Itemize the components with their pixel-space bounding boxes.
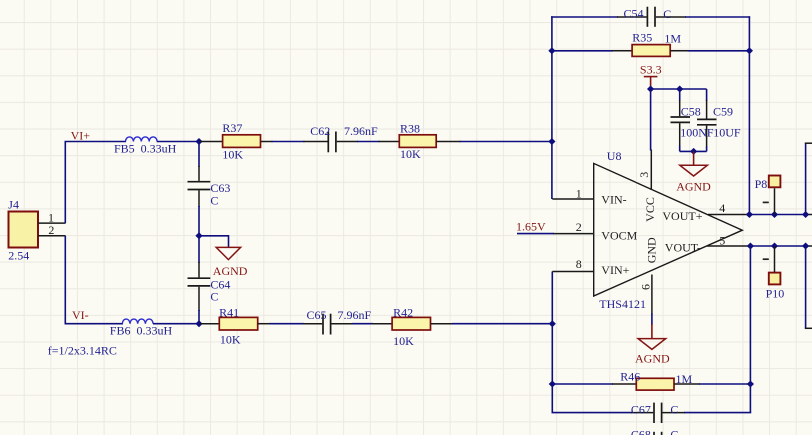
resistor R38 body xyxy=(399,135,436,148)
net label VI+ xyxy=(71,128,91,142)
wire VOUT+ row xyxy=(749,214,806,216)
wire C67 row right segment xyxy=(684,412,751,414)
op-amp pin 1 VIN- xyxy=(552,198,593,200)
junction dot VI+ / left vertical xyxy=(548,138,555,145)
junction dot R46 row right xyxy=(747,381,754,388)
wire S3.3 node down to VCC pin xyxy=(650,89,652,151)
junction dot VOUT+ / P8 xyxy=(771,211,778,218)
svg-text:R37: R37 xyxy=(222,121,242,135)
wire right vertical lower (VOUT- to off-page corner) xyxy=(805,246,807,328)
ground AGND bottom symbol xyxy=(638,339,666,350)
label C63 xyxy=(210,181,230,195)
ground AGND bottom stem xyxy=(651,324,653,338)
svg-text:R46: R46 xyxy=(620,369,640,383)
label C68 (cut off at bottom edge) xyxy=(631,428,651,435)
svg-text:f=1/2x3.14RC: f=1/2x3.14RC xyxy=(48,343,117,357)
label C54 xyxy=(624,7,644,21)
svg-text:C67: C67 xyxy=(631,403,651,417)
resistor R46 right pin xyxy=(674,383,700,385)
capacitor C68 plates (cut off at bottom edge) xyxy=(654,432,662,435)
wire J4 pin1 vertical up to VI+ row xyxy=(65,142,126,224)
junction dot VOUT+ / right vertical xyxy=(802,211,809,218)
svg-text:C62: C62 xyxy=(310,124,330,138)
op-amp pin 8 VIN+ xyxy=(552,271,593,273)
junction dot VI- / left-bottom vertical xyxy=(549,320,556,327)
wire top row right segment xyxy=(685,16,750,18)
capacitor C63 bottom pin xyxy=(198,190,200,236)
svg-text:3: 3 xyxy=(637,172,651,178)
label C59 xyxy=(713,104,733,118)
pin number 4 xyxy=(719,201,725,215)
svg-text:10K: 10K xyxy=(400,147,421,161)
wire R42 to left-bottom vertical xyxy=(452,323,552,325)
wire C58/C59 bottom xyxy=(680,150,707,152)
svg-text:10UF: 10UF xyxy=(713,126,741,140)
resistor R42 body xyxy=(392,317,430,330)
svg-text:7.96nF: 7.96nF xyxy=(338,308,372,322)
pin name VOUT- xyxy=(665,241,701,255)
svg-text:VOUT-: VOUT- xyxy=(665,241,701,255)
resistor R41 right pin xyxy=(258,323,271,325)
resistor R35 right pin xyxy=(670,50,689,52)
wire right vertical upper (from off-page corner to VOUT+) xyxy=(805,143,807,214)
wire C62 to R38 xyxy=(357,141,379,143)
label 1M of R35 xyxy=(664,32,681,46)
svg-text:C: C xyxy=(210,193,218,207)
pin name GND (rotated) xyxy=(644,237,658,263)
label FB5 0.33uH xyxy=(114,142,177,156)
wire R46 row right segment xyxy=(699,383,750,385)
label C67 xyxy=(631,403,651,417)
junction dot VOUT- / right vertical xyxy=(802,243,809,250)
capacitor C64 top pin xyxy=(198,236,200,278)
label C65 xyxy=(307,308,327,322)
P8 pin 1 number (rotated) xyxy=(763,201,769,203)
wire J4 pin2 vertical down to VI- row xyxy=(65,236,123,324)
op-amp pin 3 VCC xyxy=(650,150,652,191)
op-amp pin 6 GND xyxy=(651,275,653,315)
junction dot VOUT+ / top loop xyxy=(746,211,753,218)
capacitor C67 left pin xyxy=(631,412,653,414)
label C value of C68 (cut off) xyxy=(670,428,678,435)
svg-text:U8: U8 xyxy=(607,149,622,163)
svg-text:2: 2 xyxy=(576,220,582,234)
svg-text:R41: R41 xyxy=(219,306,239,320)
svg-text:AGND: AGND xyxy=(635,351,670,365)
capacitor C54 left pin xyxy=(617,16,647,18)
capacitor C59 bottom pin xyxy=(706,126,708,152)
pin name VOUT+ xyxy=(662,209,702,223)
svg-text:VIN-: VIN- xyxy=(601,192,626,206)
label 10K of R41 xyxy=(220,333,241,347)
capacitor C59 top pin xyxy=(706,89,708,119)
connector P8 pin 1 xyxy=(774,188,776,214)
capacitor C54 plates xyxy=(647,7,655,27)
wire top-right vertical (to VOUT+ row) xyxy=(748,16,750,214)
pin number 8 xyxy=(576,257,582,271)
wire FB5 to node A xyxy=(157,141,200,143)
pin number 2 xyxy=(576,220,582,234)
label 100NF of C58 xyxy=(680,126,714,140)
capacitor C62 right pin xyxy=(337,141,358,143)
resistor R41 body xyxy=(219,317,257,330)
svg-text:R42: R42 xyxy=(393,306,413,320)
label C64 xyxy=(210,277,230,291)
svg-text:100NF: 100NF xyxy=(680,126,714,140)
pin number 6 (rotated) xyxy=(639,284,653,290)
label 10K of R42 xyxy=(393,334,414,348)
resistor R42 right pin xyxy=(431,323,454,325)
svg-text:VOCM: VOCM xyxy=(601,228,637,242)
wire 1.65V to pin 2 xyxy=(517,233,554,235)
label C value of C67 xyxy=(670,403,678,417)
label P8 xyxy=(755,177,768,191)
wire S3.3 node to C59 xyxy=(651,88,707,90)
pin number 1 xyxy=(576,186,582,200)
svg-text:C58: C58 xyxy=(681,104,701,118)
capacitor C54 right pin xyxy=(656,16,686,18)
wire VOUT- row xyxy=(750,245,806,247)
capacitor C58 top pin xyxy=(679,89,681,116)
resistor R37 right pin xyxy=(261,141,273,143)
resistor R46 left pin xyxy=(612,383,636,385)
wire R35 row right segment xyxy=(688,50,750,52)
svg-text:C: C xyxy=(670,403,678,417)
text note f=1/2x3.14RC xyxy=(48,343,117,357)
capacitor C62 left pin xyxy=(303,141,327,143)
pin name VOCM xyxy=(601,228,637,242)
label P10 xyxy=(766,286,785,300)
label C58 xyxy=(681,104,701,118)
op-amp U1 body THS4121 triangle xyxy=(594,163,743,296)
label 10K of R38 xyxy=(400,147,421,161)
svg-text:5: 5 xyxy=(719,233,725,247)
ground AGND top symbol xyxy=(680,165,708,176)
svg-text:S3.3: S3.3 xyxy=(640,62,662,76)
junction dot node C (VI- / C64) xyxy=(195,320,202,327)
op-amp pin 4 VOUT+ xyxy=(708,214,749,216)
power port 1.65V label xyxy=(516,220,546,234)
svg-text:VCC: VCC xyxy=(643,197,657,222)
wire C65 to R42 xyxy=(352,323,373,325)
capacitor C67 plates xyxy=(654,403,662,423)
svg-text:R35: R35 xyxy=(632,31,652,45)
wire R46 row left segment xyxy=(552,383,613,385)
resistor R38 right pin xyxy=(436,141,460,143)
svg-text:GND: GND xyxy=(644,237,658,263)
svg-text:R38: R38 xyxy=(400,121,420,135)
svg-text:FB6 0.33uH: FB6 0.33uH xyxy=(110,324,173,338)
label AGND top xyxy=(676,180,711,194)
resistor R37 body xyxy=(223,135,261,148)
capacitor C64 plates xyxy=(188,278,211,286)
pin stub off-page right VOUT- xyxy=(806,245,812,247)
J4 pin 2 number xyxy=(48,223,54,237)
label R41 xyxy=(219,306,239,320)
junction dot S3.3 node xyxy=(647,86,654,93)
capacitor C65 plates xyxy=(323,314,331,335)
label FB6 0.33uH xyxy=(110,324,173,338)
ground AGND mid symbol xyxy=(216,247,240,259)
svg-text:J4: J4 xyxy=(8,197,19,211)
connector P10 pin 1 xyxy=(774,246,776,272)
svg-text:P10: P10 xyxy=(766,286,785,300)
label R37 xyxy=(222,121,242,135)
svg-text:C54: C54 xyxy=(624,7,644,21)
svg-text:VI-: VI- xyxy=(72,308,89,322)
wire top-left vertical (C54/R35 loop to pin 1) xyxy=(551,16,553,199)
wire R38 to left vertical xyxy=(460,141,552,143)
svg-text:8: 8 xyxy=(576,257,582,271)
capacitor C63 plates xyxy=(188,182,211,190)
connector P10 body xyxy=(769,273,781,285)
svg-text:C68: C68 xyxy=(631,428,651,435)
svg-text:10K: 10K xyxy=(222,148,243,162)
svg-text:VI+: VI+ xyxy=(71,128,91,142)
net label VI- xyxy=(72,308,89,322)
junction dot right R35 row xyxy=(746,47,753,54)
connector P8 body xyxy=(769,176,781,188)
label C value of C54 xyxy=(663,7,671,21)
wire R37 to C62 xyxy=(272,141,305,143)
junction dot VOUT- / bottom loop xyxy=(747,243,754,250)
svg-text:7.96nF: 7.96nF xyxy=(344,124,378,138)
wire FB6 to node C xyxy=(153,323,200,325)
label C62 xyxy=(310,124,330,138)
resistor R46 body xyxy=(636,378,674,390)
junction dot node A (VI+ / C63) xyxy=(195,138,202,145)
svg-text:6: 6 xyxy=(639,284,653,290)
P10 pin 1 number (rotated) xyxy=(763,258,769,260)
svg-text:THS4121: THS4121 xyxy=(599,297,646,311)
label C value of C64 xyxy=(210,289,218,303)
label R46 xyxy=(620,369,640,383)
ground AGND top stem xyxy=(693,151,695,164)
wire top row left segment xyxy=(551,16,618,18)
svg-text:C: C xyxy=(670,428,678,435)
wire R35 row left segment xyxy=(552,50,613,52)
capacitor C62 plates xyxy=(328,132,336,153)
label THS4121 xyxy=(599,297,646,311)
label C value of C63 xyxy=(210,193,218,207)
resistor R41 left pin xyxy=(200,323,219,325)
wire right-bottom vertical (VOUT- loop) xyxy=(749,246,751,413)
label 10UF of C59 xyxy=(713,126,741,140)
svg-text:FB5 0.33uH: FB5 0.33uH xyxy=(114,142,177,156)
wire GND pin to AGND bottom xyxy=(651,314,653,326)
label 7.96nF of C62 xyxy=(344,124,378,138)
svg-text:2: 2 xyxy=(48,223,54,237)
connector J4 body xyxy=(9,212,39,248)
power port S3.3 bar symbol xyxy=(644,77,658,89)
capacitor C67 right pin xyxy=(662,412,685,414)
pin name VCC (rotated) xyxy=(643,197,657,222)
capacitor C58 bottom pin xyxy=(679,123,681,151)
svg-text:10K: 10K xyxy=(220,333,241,347)
capacitor C65 right pin xyxy=(331,323,353,325)
ferrite bead FB5 body xyxy=(126,137,158,142)
junction dot VOUT- / P10 xyxy=(771,243,778,250)
svg-text:1M: 1M xyxy=(664,32,681,46)
svg-text:10K: 10K xyxy=(393,334,414,348)
svg-text:C: C xyxy=(210,289,218,303)
pin number 3 (rotated) xyxy=(637,172,651,178)
svg-text:P8: P8 xyxy=(755,177,768,191)
pin name VIN- xyxy=(601,192,626,206)
label R38 xyxy=(400,121,420,135)
resistor R37 left pin xyxy=(200,141,223,143)
capacitor C63 top pin (from node A) xyxy=(198,142,200,181)
resistor R35 body xyxy=(632,45,670,57)
junction dot C58 top xyxy=(676,86,683,93)
wire left-bottom vertical (pin 8 down to C67 loop) xyxy=(551,272,553,413)
svg-text:C65: C65 xyxy=(307,308,327,322)
label 10K of R37 xyxy=(222,148,243,162)
svg-text:VIN+: VIN+ xyxy=(601,263,629,277)
svg-text:1.65V: 1.65V xyxy=(516,220,546,234)
wire node B to AGND stem xyxy=(199,236,229,247)
capacitor C59 plates xyxy=(697,119,717,124)
junction dot R46 row left xyxy=(549,381,556,388)
capacitor C64 bottom pin xyxy=(198,287,200,324)
J4 pin 1 number xyxy=(48,211,54,225)
junction dot left R35 row xyxy=(548,47,555,54)
capacitor C58 plates xyxy=(671,117,691,122)
label 2.54 of J4 xyxy=(8,249,29,263)
label AGND mid xyxy=(213,264,248,278)
svg-text:1: 1 xyxy=(576,186,582,200)
resistor R42 left pin xyxy=(372,323,392,325)
label R35 xyxy=(632,31,652,45)
svg-text:C59: C59 xyxy=(713,104,733,118)
label AGND bottom xyxy=(635,351,670,365)
svg-text:4: 4 xyxy=(719,201,725,215)
label 1M of R46 xyxy=(676,372,693,386)
J4 pin 1 xyxy=(38,222,66,224)
wire C67 row left segment xyxy=(552,412,633,414)
capacitor C65 left pin xyxy=(303,323,322,325)
junction dot node B (C63/C64/AGND) xyxy=(195,232,202,239)
svg-text:AGND: AGND xyxy=(676,180,711,194)
label J4 xyxy=(8,197,19,211)
resistor R38 left pin xyxy=(378,141,399,143)
pin number 5 xyxy=(719,233,725,247)
label U8 designator xyxy=(607,149,622,163)
op-amp pin 5 VOUT- xyxy=(707,245,750,247)
pin name VIN+ xyxy=(601,263,629,277)
pin stub off-page corner top xyxy=(805,142,812,144)
svg-text:AGND: AGND xyxy=(213,264,248,278)
svg-text:VOUT+: VOUT+ xyxy=(662,209,702,223)
svg-text:2.54: 2.54 xyxy=(8,249,29,263)
resistor R35 left pin xyxy=(612,50,632,52)
ferrite bead FB6 body xyxy=(122,319,153,324)
pin stub off-page corner bottom xyxy=(805,327,812,329)
junction dot bypass ground node xyxy=(690,148,697,155)
pin stub off-page right VOUT+ xyxy=(806,214,812,216)
J4 pin 2 xyxy=(38,235,66,237)
svg-text:C: C xyxy=(663,7,671,21)
power port S3.3 label xyxy=(640,62,662,76)
op-amp pin 2 VOCM xyxy=(553,233,594,235)
label R42 xyxy=(393,306,413,320)
label 7.96nF of C65 xyxy=(338,308,372,322)
wire R41 to C65 xyxy=(270,323,305,325)
